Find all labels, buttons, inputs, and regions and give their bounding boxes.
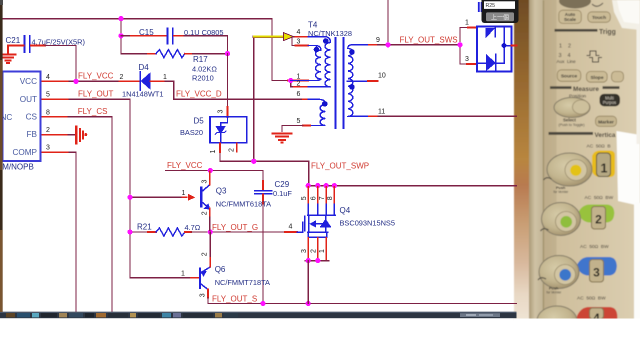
popup search box [482, 0, 519, 23]
svg-text:AC 50Ω B: AC 50Ω B [587, 143, 611, 149]
svg-text:3: 3 [218, 110, 225, 114]
svg-text:0.1uF: 0.1uF [273, 189, 292, 198]
svg-text:0.1U C0805: 0.1U C0805 [184, 28, 223, 37]
svg-text:6: 6 [311, 196, 318, 200]
svg-text:C21: C21 [6, 36, 21, 45]
svg-text:Purpos: Purpos [603, 100, 616, 105]
button Multipurpose (dark) [600, 94, 620, 106]
wire Q3 emitter stub [209, 209, 211, 218]
white background right notch mid [617, 131, 640, 206]
svg-text:8: 8 [327, 196, 334, 200]
wire Q6 base feed [130, 277, 191, 279]
knob ch1 [547, 153, 592, 186]
svg-text:FLY_OUT_SWP: FLY_OUT_SWP [311, 161, 369, 170]
wire C29 top lead [262, 181, 264, 190]
svg-text:2: 2 [120, 74, 124, 81]
blue wire bits left of popup [479, 2, 482, 12]
button edge partial [612, 71, 624, 82]
node junction at (290.7,80.5) [288, 78, 293, 83]
svg-text:6: 6 [297, 91, 301, 98]
svg-text:5: 5 [301, 196, 308, 200]
svg-text:BSC093N15NS5: BSC093N15NS5 [340, 218, 395, 227]
svg-text:Aux Line: Aux Line [557, 59, 577, 64]
svg-text:1: 1 [601, 162, 608, 176]
svg-text:Measure: Measure [573, 86, 599, 93]
ground under T4 pin5 [273, 134, 292, 143]
wire FB pin2 [41, 134, 69, 136]
svg-text:FLY_OUT_S: FLY_OUT_S [212, 294, 257, 303]
wire R21 left lead [130, 231, 148, 233]
resistor R21 [156, 228, 185, 236]
bezel strip [529, 0, 544, 320]
svg-text:1N4148WT1: 1N4148WT1 [122, 90, 164, 99]
wire T4 pin6 stub [303, 98, 308, 100]
wire Q4 source down to FLY_OUT_S [307, 261, 309, 304]
transistor Q3 (NPN) [201, 185, 210, 209]
wire net N1 top (to T4 pins 1/2) [2, 19, 288, 81]
wire Q6 emitter stub up [209, 232, 211, 258]
svg-text:NC/FMMT718TA: NC/FMMT718TA [215, 278, 270, 287]
svg-text:1: 1 [181, 271, 185, 278]
left window edge strip [0, 0, 3, 312]
button Marker [596, 116, 617, 126]
ch4 button 4 partial [590, 308, 604, 319]
svg-text:Touch: Touch [592, 15, 606, 21]
squiggle ch3 [538, 278, 546, 280]
node junction at (210.3,232) [208, 229, 213, 234]
wire FLY_VCC rail [166, 171, 264, 182]
svg-text:CS: CS [26, 113, 38, 122]
node junctions on drain rail [306, 183, 311, 188]
wire T4 pin9 [352, 44, 369, 46]
svg-text:D4: D4 [139, 63, 150, 72]
wire C21 right lead [31, 45, 45, 47]
white overexposed corner [612, 0, 640, 30]
node junction at (253.75,161.3) [251, 159, 256, 164]
svg-text:BAS20: BAS20 [180, 128, 203, 137]
svg-text:2: 2 [201, 211, 208, 215]
wire R17 right lead [185, 53, 193, 55]
divider Trigger [555, 29, 598, 32]
svg-text:D5: D5 [194, 117, 205, 126]
button Touch [588, 12, 611, 22]
wire SWS vertical from yellow to SWP node [253, 37, 255, 162]
svg-text:1: 1 [210, 150, 217, 154]
svg-text:9: 9 [376, 37, 380, 44]
svg-text:1: 1 [182, 190, 186, 197]
wire FLY_OUT_S rail [208, 303, 517, 305]
svg-text:OUT: OUT [20, 95, 37, 104]
node junction at (130,232) [127, 229, 132, 234]
wire Q4 source rail [305, 260, 329, 262]
wire Q4 pin5-8 stubs [308, 187, 334, 204]
divider Vertical [549, 132, 594, 135]
ch1 yellow frame and button 1 [592, 151, 615, 178]
svg-text:4.7uF/25V(X5R): 4.7uF/25V(X5R) [32, 37, 85, 46]
wire D5 pin1 to SWP node [220, 152, 254, 161]
wire D4 anode stub [120, 80, 140, 82]
wire vertical C15/R17 feed [120, 19, 122, 54]
white background right sliver [637, 24, 640, 144]
svg-text:NC/FMMT618TA: NC/FMMT618TA [216, 199, 271, 208]
svg-text:3: 3 [201, 180, 208, 184]
wire C15 left lead [121, 35, 131, 37]
svg-text:Scale: Scale [564, 17, 576, 22]
ch3 button 3 [590, 260, 604, 283]
svg-text:3: 3 [593, 266, 600, 280]
svg-text:R21: R21 [137, 223, 152, 232]
wire C29 bottom lead [262, 195, 264, 204]
svg-text:AC 50Ω BW: AC 50Ω BW [585, 195, 614, 201]
svg-text:for Vernier: for Vernier [554, 190, 570, 194]
wooden edge strip [514, 0, 529, 320]
knob ch2 [542, 203, 581, 236]
ch2 green band [578, 205, 614, 223]
wire yellow highlighted segment [254, 35, 284, 38]
svg-text:R25: R25 [486, 3, 496, 9]
SCHEMATIC_GROUP [0, 0, 519, 318]
svg-text:Marker: Marker [598, 119, 614, 125]
ground C21 [1, 54, 16, 63]
svg-text:1 2: 1 2 [559, 44, 571, 50]
transformer T4 winding C (pins 6-5) [308, 99, 326, 125]
button Source [557, 70, 581, 82]
divider Measure [550, 86, 572, 89]
svg-text:AC 50Ω BW: AC 50Ω BW [580, 244, 609, 250]
ch4 red band partial [576, 307, 617, 320]
wire FLY_OUT_G to Q4 gate [210, 231, 285, 233]
svg-text:2: 2 [595, 213, 602, 227]
svg-text:5: 5 [46, 92, 50, 99]
svg-text:1: 1 [319, 249, 326, 253]
IC U? (LM5022) box [3, 72, 41, 162]
transformer T4 polarity dot winding C [322, 101, 328, 107]
capacitor C29 [255, 191, 272, 194]
resistor R17 [156, 50, 185, 58]
photo bottom boundary [514, 319, 640, 360]
transformer T4 winding B (pins 3-1) [291, 46, 321, 81]
svg-text:4.7Ω: 4.7Ω [185, 223, 201, 232]
wire D4 pin1 lead [151, 80, 166, 82]
svg-text:Source: Source [561, 74, 578, 80]
node junction at (460,44.8) [457, 42, 462, 47]
svg-text:for Vernier: for Vernier [547, 290, 563, 294]
wire OUT pin5 (FLY_OUT) [41, 98, 70, 100]
svg-text:5: 5 [297, 118, 301, 125]
svg-text:FLY_CS: FLY_CS [78, 107, 108, 116]
wire D5 pin1 stub [219, 143, 221, 152]
svg-text:R17: R17 [193, 55, 208, 64]
svg-text:3: 3 [199, 293, 206, 297]
svg-text:FLY_VCC: FLY_VCC [78, 72, 114, 81]
svg-text:10: 10 [378, 73, 386, 80]
svg-text:IM/NOPB: IM/NOPB [0, 163, 34, 172]
node junction at (308.2,303.5) [306, 301, 311, 306]
node junction at (121,35.8) [118, 33, 123, 38]
svg-text:2: 2 [297, 81, 301, 88]
knob Select [554, 98, 590, 118]
top sine squiggle [592, 3, 603, 6]
svg-text:Slope: Slope [590, 75, 603, 81]
dual diode D box [477, 27, 512, 72]
svg-text:2: 2 [228, 148, 235, 152]
squiggle ch1 [544, 178, 552, 180]
node junction at (121,18.6) [118, 16, 123, 21]
wire COMP pin3 [41, 151, 70, 153]
wire vertical into pin9 from top [387, 0, 389, 45]
wire D5 pin2 stub (n.c.) [236, 143, 238, 151]
svg-text:3: 3 [465, 56, 469, 63]
svg-text:上一個: 上一個 [491, 13, 509, 21]
wire T4 pin3 stub [292, 37, 296, 46]
svg-text:(Push to Toggle): (Push to Toggle) [559, 123, 585, 127]
dual diode D (top right) pins 1/3 link [459, 28, 461, 65]
svg-text:T4: T4 [308, 20, 318, 29]
svg-text:Vertica: Vertica [595, 132, 616, 139]
svg-text:FLY_OUT: FLY_OUT [78, 89, 114, 98]
button Auto Scale [559, 10, 582, 23]
wire R17 left lead [121, 53, 148, 55]
node junction at (210.3,170.5) [208, 168, 213, 173]
squiggle ch2 [541, 229, 549, 231]
wire FLY_VCC_D [165, 81, 303, 99]
svg-text:4: 4 [289, 224, 293, 231]
ch3 blue band [577, 257, 617, 276]
wire T4 pin1 stub [288, 80, 308, 82]
svg-text:3: 3 [46, 145, 50, 152]
wire Q6 collector stub down [207, 290, 209, 298]
svg-text:2: 2 [202, 252, 209, 256]
svg-text:FLY_VCC: FLY_VCC [167, 161, 203, 170]
ground FB (sideways) [76, 127, 83, 144]
svg-text:NC/TNK1328: NC/TNK1328 [308, 29, 352, 38]
svg-text:Trigg: Trigg [599, 29, 616, 36]
svg-text:1: 1 [297, 73, 301, 80]
wire FLY_OUT_SWS [378, 44, 461, 46]
svg-text:7: 7 [319, 196, 326, 200]
wire R21 right lead [185, 231, 191, 233]
node junction at (227.5,53.6) [225, 51, 230, 56]
svg-text:FLY_OUT_G: FLY_OUT_G [212, 223, 258, 232]
transformer T4 core [335, 38, 343, 128]
svg-text:8: 8 [46, 109, 50, 116]
svg-text:2: 2 [311, 249, 318, 253]
svg-text:FB: FB [27, 130, 38, 139]
wire C15 right lead [174, 35, 184, 37]
svg-text:Q4: Q4 [340, 206, 351, 215]
svg-text:3: 3 [301, 249, 308, 253]
trigger pulse glyphs [587, 51, 600, 56]
svg-text:2: 2 [46, 127, 50, 134]
wire Q3 collector stub [209, 172, 211, 185]
svg-text:COMP: COMP [12, 148, 37, 157]
wire C21 left lead to ground [8, 46, 24, 54]
wire T4 pin5 stub [303, 125, 310, 127]
bottom taskbar strip [0, 312, 517, 318]
wire dual diode output stub [511, 45, 516, 47]
svg-text:Q6: Q6 [215, 265, 226, 274]
svg-text:Select: Select [563, 118, 576, 123]
taskbar light text area [460, 313, 500, 317]
svg-text:VCC: VCC [20, 77, 37, 86]
svg-text:4: 4 [297, 29, 301, 36]
transistor Q6 (PNP) [200, 267, 210, 290]
transformer T4 polarity dot winding B [314, 47, 320, 53]
knob ch3 [539, 256, 579, 289]
wire T4 pin2 stub [294, 86, 308, 88]
wire T4 pin10 [347, 80, 368, 82]
svg-text:C15: C15 [139, 28, 154, 37]
wire to D5 pin3 [227, 54, 229, 107]
svg-text:11: 11 [378, 109, 385, 116]
dual diode internals [477, 27, 511, 71]
photo background panel [514, 0, 640, 320]
svg-text:1: 1 [163, 74, 167, 81]
capacitor C21 [25, 36, 30, 52]
transformer T4 winding A (pins 4-2) [308, 37, 331, 87]
dual diode junction dot [502, 43, 507, 48]
capacitor C15 [168, 29, 173, 44]
svg-text:3: 3 [297, 38, 301, 45]
wire SWP node to Q4 drain [254, 161, 309, 185]
svg-text:AC 50Ω BW: AC 50Ω BW [577, 296, 606, 302]
mosfet Q4 symbol [297, 215, 335, 237]
wire VCC pin4 [41, 80, 70, 82]
wire CS pin8 (FLY_CS) [41, 116, 69, 118]
transformer T4 polarity dots winding D [349, 49, 355, 55]
wire T4 pin11 [352, 115, 369, 117]
node junction at (388,44.8) [385, 42, 390, 47]
svg-text:Q3: Q3 [216, 186, 227, 195]
diode D4 [140, 72, 150, 90]
taskbar colored thumbnails [6, 313, 15, 317]
transformer T4 winding D (pins 9-11) [348, 45, 353, 117]
transformer T4 polarity dot winding A [323, 38, 329, 44]
knob ch4 partial [537, 306, 577, 336]
arrow yellow net [284, 33, 294, 41]
svg-text:FLY_OUT_SWS: FLY_OUT_SWS [400, 36, 458, 45]
svg-text:1: 1 [465, 20, 469, 27]
svg-text:R2010: R2010 [192, 74, 214, 83]
top knob partial [559, 0, 591, 9]
button Slope [586, 71, 607, 82]
wire Q3 base (FLY_OUT) [130, 196, 183, 198]
wire Q4 drain rail to right edge [308, 185, 517, 187]
wire T4 pin4 stub [293, 36, 295, 38]
svg-text:4: 4 [46, 74, 50, 81]
ch2 button 2 [592, 207, 606, 230]
svg-text:3 4: 3 4 [559, 53, 571, 59]
diode D5 internal zener [215, 117, 227, 143]
wire Q4 source stubs [308, 238, 326, 260]
node junction at (130,197.3) [127, 195, 132, 200]
wire branch to T4 pin2 [291, 81, 294, 87]
svg-text:4.02KΩ: 4.02KΩ [192, 64, 217, 73]
diode D5 box [210, 117, 247, 143]
svg-text:FLY_VCC_D: FLY_VCC_D [176, 90, 222, 99]
svg-text:C29: C29 [275, 180, 290, 189]
arrow into Q3 base [188, 194, 195, 201]
node junction at (76,81.4) [73, 79, 78, 84]
node junction at (263.5,303.5) [260, 301, 265, 306]
